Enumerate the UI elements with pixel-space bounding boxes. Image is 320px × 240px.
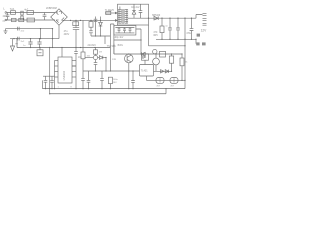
transformer T1 bbox=[119, 7, 121, 10]
wire output mid line bbox=[156, 38, 196, 40]
transformer primary arrow bbox=[115, 19, 118, 22]
capacitor C13 bbox=[50, 76, 54, 88]
capacitor C6 bbox=[94, 17, 98, 37]
wire link 2 bbox=[52, 29, 54, 48]
svg-text:T2A: T2A bbox=[10, 8, 15, 11]
resistor R3 bbox=[90, 20, 92, 36]
svg-text:4n7: 4n7 bbox=[24, 8, 29, 11]
wire top AC rail bbox=[7, 12, 55, 14]
wire Y-cap lower line bbox=[10, 38, 59, 40]
pin 1 bbox=[55, 60, 59, 62]
svg-text:4V7: 4V7 bbox=[170, 86, 174, 88]
svg-text:0R5: 0R5 bbox=[153, 35, 158, 37]
wire to U1 pin bbox=[91, 35, 110, 37]
op-amp U1 switcher IC bbox=[109, 24, 111, 89]
capacitor C16 bbox=[176, 18, 180, 39]
inductor L1 common-mode choke bbox=[21, 11, 23, 15]
wire DC+ rail bbox=[63, 19, 115, 21]
pin 2 bbox=[55, 65, 59, 67]
resistor R1 on lower rail bbox=[27, 18, 35, 22]
capacitor C20 bbox=[131, 71, 135, 89]
svg-text:LNK304: LNK304 bbox=[62, 70, 66, 80]
wire mid feedback line bbox=[85, 57, 93, 59]
capacitor CY1 bbox=[28, 39, 32, 48]
capacitor bank C7 C8 C9 clamp box bbox=[114, 26, 136, 36]
wire Q1 emitter to bus bbox=[128, 71, 130, 89]
inductor L2 output bbox=[196, 15, 203, 19]
capacitor C2 bbox=[27, 11, 34, 15]
capacitor C4b Y bbox=[17, 37, 19, 41]
wire U1 drain bbox=[114, 39, 141, 41]
ground chassis arrow bbox=[12, 39, 14, 46]
wire bottom AC rail bbox=[7, 19, 55, 21]
wire U2 right pin bus bbox=[75, 66, 77, 89]
wire right bus vertical bbox=[184, 18, 186, 88]
zener Z2 bbox=[170, 78, 178, 84]
capacitor CY2 bbox=[37, 39, 41, 48]
capacitor C3 X2 bbox=[43, 13, 47, 21]
svg-text:1k: 1k bbox=[185, 62, 188, 64]
transistor Q3 bbox=[93, 55, 97, 59]
opto U3 bbox=[142, 54, 149, 60]
svg-text:L: L bbox=[3, 7, 5, 11]
zener Z1 bbox=[156, 78, 164, 84]
resistor R2 startup bbox=[82, 20, 84, 88]
wire enclosure to gnd line bbox=[148, 25, 150, 46]
pin 4 bbox=[55, 76, 59, 78]
wire switch node line bbox=[114, 53, 182, 55]
pin 3 bbox=[55, 71, 59, 73]
diode D11 bbox=[161, 70, 164, 73]
svg-text:N: N bbox=[3, 19, 5, 23]
svg-text:12V: 12V bbox=[201, 28, 208, 32]
wire output gnd line bbox=[149, 45, 186, 47]
wire U1 bypass down bbox=[113, 44, 115, 54]
wire secondary rail bbox=[128, 17, 196, 19]
shunt reg U4 TL431 bbox=[140, 65, 154, 77]
wire bridge negative bbox=[58, 25, 60, 39]
svg-text:16V: 16V bbox=[113, 82, 117, 84]
pin 8 bbox=[72, 76, 76, 78]
wire right of diode bbox=[105, 58, 107, 72]
svg-text:220n: 220n bbox=[3, 15, 9, 18]
svg-text:2KBP06M: 2KBP06M bbox=[46, 7, 57, 10]
ground earth symbol bbox=[4, 29, 8, 34]
svg-text:BIAS: BIAS bbox=[118, 44, 124, 47]
svg-text:400V: 400V bbox=[64, 33, 70, 36]
resistor R12 bbox=[161, 18, 163, 39]
resistor R15 bbox=[171, 54, 173, 71]
svg-text:100p 1kV: 100p 1kV bbox=[114, 37, 124, 39]
fuse F1 bbox=[11, 11, 16, 15]
svg-text:1n: 1n bbox=[23, 45, 26, 47]
svg-text:10k 2n2: 10k 2n2 bbox=[131, 7, 140, 9]
capacitor C1 220n X2 bbox=[6, 13, 10, 21]
transistor Q2 bbox=[155, 54, 157, 58]
pin 6 bbox=[72, 65, 76, 67]
svg-text:100u: 100u bbox=[113, 79, 119, 81]
capacitor C22 bbox=[100, 71, 104, 89]
thermistor RT1 bbox=[12, 18, 17, 21]
capacitor C14 bbox=[87, 71, 91, 89]
wire tie line bbox=[43, 75, 55, 77]
svg-text:TL431: TL431 bbox=[141, 70, 148, 73]
resistor R17 bbox=[73, 22, 79, 26]
capacitor C11 10n bbox=[72, 48, 78, 67]
wire left long vertical bbox=[49, 48, 51, 94]
diode D8 bbox=[95, 48, 97, 56]
wire clamp to drain bbox=[136, 29, 141, 54]
wire lower return bus bbox=[50, 93, 166, 95]
capacitor C5 bulk electrolytic 47u/400V bbox=[73, 20, 79, 47]
pin 7 bbox=[72, 71, 76, 73]
capacitor C19 bbox=[94, 60, 98, 71]
capacitor C12 bbox=[44, 76, 48, 88]
node N terminal circle bbox=[5, 19, 7, 21]
node TP circle bbox=[153, 49, 157, 53]
op-amp U2 controller IC bbox=[58, 57, 72, 83]
wire low horizontal line bbox=[83, 70, 140, 72]
svg-text:4V7: 4V7 bbox=[156, 86, 160, 88]
capacitor C10 clamp bbox=[139, 4, 143, 18]
wire Y-cap upper line bbox=[6, 28, 53, 30]
varistor RV1 bbox=[19, 18, 24, 21]
svg-text:1n: 1n bbox=[165, 25, 168, 27]
svg-text:D9: D9 bbox=[99, 52, 103, 54]
svg-text:470: 470 bbox=[153, 32, 158, 34]
wire primary ground bus bbox=[17, 39, 110, 48]
svg-text:SB5100: SB5100 bbox=[152, 15, 161, 17]
capacitor C4a Y bbox=[17, 27, 19, 31]
diode D1 bbox=[100, 17, 102, 37]
wire U2 left pin bus bbox=[54, 61, 56, 89]
wire TL sense line bbox=[154, 70, 172, 72]
diode D3 bbox=[98, 57, 100, 59]
diode D10 bbox=[142, 52, 146, 55]
resistor R14 bbox=[160, 51, 166, 57]
wire secondary ground bus bbox=[43, 88, 186, 90]
svg-text:470u: 470u bbox=[186, 33, 192, 35]
wire lower right line bbox=[147, 79, 186, 81]
connector J2 bbox=[39, 48, 41, 50]
wire bus stub bbox=[42, 80, 44, 88]
wire link bbox=[40, 29, 42, 39]
svg-text:2n2: 2n2 bbox=[21, 41, 25, 43]
resistor R11 bbox=[108, 77, 112, 83]
wire feedback tap bbox=[105, 12, 115, 14]
transformer T1 enclosure bbox=[118, 4, 149, 25]
node L terminal circle bbox=[5, 12, 7, 14]
capacitor C17 output electrolytic bbox=[190, 18, 194, 39]
junction dots bbox=[13, 18, 196, 95]
pin 5 bbox=[72, 60, 76, 62]
wire U2 top feed bbox=[61, 48, 63, 58]
diode D2 clamp bbox=[133, 4, 135, 10]
svg-text:22R: 22R bbox=[112, 59, 116, 61]
diode D12 bbox=[165, 70, 168, 73]
svg-text:2n2: 2n2 bbox=[21, 31, 25, 33]
resistor R16 bbox=[181, 54, 183, 80]
wire return riser bbox=[165, 89, 167, 94]
bridge rectifier B1 bbox=[51, 9, 68, 25]
transistor Q1 bbox=[125, 54, 134, 63]
capacitor C15 bbox=[168, 18, 172, 39]
diode D6 output rectifier bbox=[154, 16, 158, 20]
